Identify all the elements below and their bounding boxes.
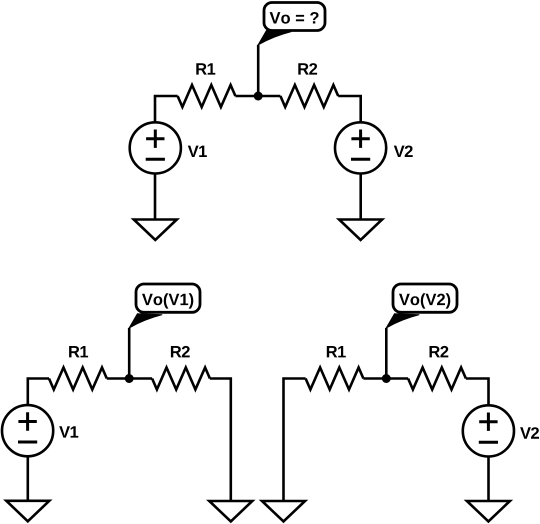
label V2 (bottom right): [520, 427, 539, 439]
wire: callout to node Vo: [257, 45, 260, 96]
resistor R1 (top): [178, 85, 236, 107]
V1 plus sign (bottom left): [18, 412, 36, 430]
callout tail (top): [258, 31, 291, 45]
V2 minus sign (bottom right): [479, 441, 498, 444]
resistor R2 (bottom left): [152, 368, 210, 390]
label R2 (bottom left): [171, 346, 190, 358]
label V2 (top): [394, 146, 413, 158]
label R2 (bottom right): [430, 346, 449, 358]
label V1 (bottom left): [59, 426, 78, 437]
label R2 (top): [298, 63, 317, 75]
voltage source V1 (top): [130, 122, 181, 173]
V1 minus sign (bottom left): [18, 441, 37, 444]
ground (under V2, top circuit): [339, 220, 382, 241]
ground (under V1, top circuit): [134, 220, 177, 241]
label R1 (top): [196, 63, 215, 74]
voltage source V2 (bottom right): [463, 405, 514, 456]
node Vo(V2) junction dot: [382, 374, 391, 383]
V2 plus sign (top): [351, 130, 369, 148]
node Vo (junction dot): [254, 92, 263, 101]
resistor R2 (top): [280, 85, 338, 107]
wire: V1 top lead to R1 left: [155, 96, 178, 122]
wire: V2 bottom to ground: [359, 174, 362, 220]
resistor R1 (bottom right): [306, 368, 364, 390]
wire: R1 right to R2 left through node: [235, 95, 280, 98]
ground (left leg, bottom right): [262, 501, 305, 522]
wire: callout to node Vo(V1): [128, 328, 131, 379]
wire: V2 bottom to ground (bottom right): [487, 457, 490, 502]
ground (under V1, bottom left): [6, 501, 49, 522]
ground (right leg, bottom left): [209, 501, 252, 522]
V2 minus sign (top): [351, 158, 370, 161]
resistor R1 (bottom left): [49, 368, 107, 390]
wire: V1 bottom to ground (bottom left): [26, 456, 29, 501]
callout box Vo = ?: [264, 3, 325, 31]
voltage source V2 (top): [335, 122, 386, 173]
callout box Vo(V1): [136, 284, 200, 312]
wire: R2 right to V2 top lead: [338, 96, 361, 122]
label R1 (bottom right): [327, 346, 346, 357]
ground (under V2, bottom right): [467, 501, 510, 522]
voltage source V1 (bottom left): [2, 405, 53, 456]
label R1 (bottom left): [69, 346, 88, 357]
V2 plus sign (bottom right): [479, 413, 497, 431]
label V1 (top): [188, 146, 207, 157]
wire: R1 right to R2 left through node (bottom left): [107, 377, 152, 380]
wire: R2 right down to ground (bottom left): [210, 379, 231, 502]
wire: callout to node Vo(V2): [385, 328, 388, 379]
wire: V1 top lead to R1 left (bottom left): [28, 379, 49, 405]
callout box Vo(V2): [393, 284, 457, 312]
wire: V1 bottom to ground: [154, 174, 157, 220]
resistor R2 (bottom right): [408, 368, 466, 390]
node Vo(V1) junction dot: [125, 374, 134, 383]
V1 minus sign (top): [146, 158, 165, 161]
wire: R2 right to V2 top lead (bottom right): [466, 379, 489, 406]
wire: left ground up to R1 left (bottom right): [284, 379, 306, 502]
callout tail (bottom right): [386, 314, 419, 328]
callout tail (bottom left): [129, 314, 162, 328]
wire: R1 right to R2 left through node (bottom right): [363, 377, 408, 380]
V1 plus sign (top): [146, 130, 164, 148]
